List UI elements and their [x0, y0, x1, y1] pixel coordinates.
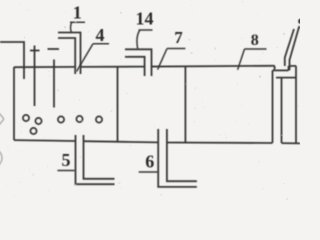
plus terminal sign	[30, 50, 40, 52]
bubble 3	[30, 128, 36, 134]
svg-text:7: 7	[174, 28, 183, 47]
downcomer left wall	[272, 70, 274, 142]
tank right wall	[295, 66, 297, 143]
downcomer right wall	[281, 78, 283, 143]
pipe 5 outer wall	[76, 135, 115, 184]
tank top wall segment B	[81, 66, 145, 68]
tank top wall segment D	[289, 65, 297, 67]
bubble 6	[96, 116, 102, 122]
electrode cathode rod	[53, 60, 55, 108]
tank bottom wall segment D	[282, 142, 301, 144]
tank top step up	[288, 66, 290, 70]
margin artifact mark upper	[0, 113, 4, 125]
tank bottom wall segment B	[84, 141, 159, 142]
leader line label 4	[77, 44, 110, 72]
pipe 1 inner wall	[58, 38, 75, 74]
svg-text:4: 4	[96, 25, 105, 45]
leader line label 7	[158, 49, 186, 70]
tank top step down	[274, 66, 276, 71]
pipe 14 outer wall	[125, 49, 152, 76]
wire DC feed line	[0, 42, 24, 79]
divider wall 2	[184, 66, 186, 142]
bubble 5	[76, 116, 82, 122]
pipe 5 inner wall	[84, 135, 115, 179]
tank bottom wall segment A	[14, 139, 76, 142]
pipe 14 inner wall	[125, 57, 145, 76]
pipe 1 outer wall	[58, 33, 81, 75]
bubble 2	[35, 118, 41, 124]
leader line label 6	[139, 171, 158, 173]
bubble 4	[58, 116, 64, 122]
tank left wall	[13, 67, 15, 140]
leader line label 5	[57, 170, 75, 172]
svg-text:6: 6	[145, 152, 154, 172]
svg-text:14: 14	[136, 9, 154, 29]
tank top wall segment C	[152, 65, 275, 68]
svg-text:1: 1	[73, 2, 82, 22]
leader line label 14	[137, 30, 153, 49]
trough top wall	[273, 69, 289, 71]
electrode anode rod	[34, 46, 36, 107]
pipe 6 outer wall	[158, 129, 197, 187]
pipe 9 slant left wall	[285, 29, 294, 66]
tank top wall segment A	[14, 66, 75, 68]
scan noise speckles	[6, 1, 300, 200]
svg-text:5: 5	[62, 150, 71, 170]
svg-text:9: 9	[298, 16, 300, 32]
pipe 9 slant right wall	[290, 27, 300, 70]
leader line label 8	[238, 49, 267, 70]
divider wall 1	[117, 67, 119, 142]
bubble 1	[23, 115, 29, 121]
pipe 6 inner wall	[167, 129, 197, 181]
minus terminal sign	[48, 48, 60, 50]
leader line label 1	[70, 22, 85, 32]
trough bottom wall	[276, 77, 296, 79]
margin artifact mark lower	[0, 151, 2, 165]
tank bottom wall segment C	[167, 142, 273, 145]
